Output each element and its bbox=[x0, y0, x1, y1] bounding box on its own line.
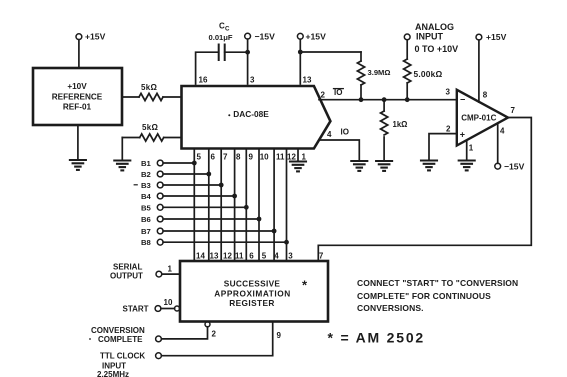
svg-text:8: 8 bbox=[483, 91, 488, 100]
terminal B8 bbox=[141, 238, 163, 247]
wire comparator output pin 7 feedback loop to SAR pin 7 bbox=[318, 118, 531, 262]
resistor R3 1kOhm (summing node to ground) bbox=[381, 100, 408, 161]
svg-text:7: 7 bbox=[319, 252, 324, 261]
terminal start pin 10 bbox=[123, 298, 173, 314]
svg-text:REGISTER: REGISTER bbox=[229, 298, 275, 308]
wire +15V to REF-01 top bbox=[78, 40, 80, 68]
wire DAC pin 4 to ground bbox=[320, 140, 360, 161]
svg-text:B4: B4 bbox=[141, 192, 152, 201]
svg-text:4: 4 bbox=[327, 130, 332, 139]
net IObar label bbox=[334, 88, 344, 97]
wire DAC pin 8 bus bit 4 bbox=[234, 149, 236, 262]
svg-text:4: 4 bbox=[500, 127, 505, 136]
svg-text:0 TO +10V: 0 TO +10V bbox=[415, 44, 459, 54]
node junction 3.9M / summing line bbox=[359, 97, 364, 102]
svg-text:* = AM 2502: * = AM 2502 bbox=[328, 329, 426, 345]
svg-text:1: 1 bbox=[302, 153, 307, 162]
wire B4 to bus bbox=[163, 195, 235, 197]
wire serial output to U4 bbox=[162, 273, 180, 275]
svg-text:INPUT: INPUT bbox=[416, 31, 444, 41]
register U4 successive approximation register AM2502 bbox=[180, 252, 328, 322]
svg-text:5: 5 bbox=[197, 153, 202, 162]
svg-text:+15V: +15V bbox=[85, 32, 106, 42]
svg-text:*: * bbox=[302, 278, 308, 293]
svg-text:B3: B3 bbox=[141, 181, 151, 190]
svg-text:2: 2 bbox=[212, 330, 217, 339]
node junction R4 / summing line bbox=[405, 97, 410, 102]
svg-text:0.01μF: 0.01μF bbox=[209, 33, 233, 42]
svg-text:8: 8 bbox=[236, 153, 241, 162]
svg-text:COMPLETE" FOR CONTINUOUS: COMPLETE" FOR CONTINUOUS bbox=[357, 291, 491, 301]
node junction CC / -15V / DAC pin 3 bbox=[245, 50, 250, 55]
bubble start input (active low) bbox=[175, 306, 180, 311]
svg-text:−15V: −15V bbox=[255, 31, 276, 41]
svg-text:12: 12 bbox=[287, 153, 296, 162]
ground at DAC pin 4 bbox=[351, 161, 367, 171]
svg-text:9: 9 bbox=[277, 331, 282, 340]
svg-text:5.00kΩ: 5.00kΩ bbox=[414, 69, 443, 79]
terminal B3 bbox=[134, 181, 163, 190]
resistor R2 5kOhm (DAC pin 15 to ground) bbox=[122, 123, 181, 160]
svg-text:COMPLETE: COMPLETE bbox=[98, 335, 143, 344]
ground at comparator pin 2 bbox=[421, 161, 437, 171]
resistor R5 3.9MOhm bbox=[357, 52, 390, 100]
svg-text:1: 1 bbox=[469, 144, 474, 153]
svg-text:2: 2 bbox=[321, 91, 326, 100]
node junction B1 bbox=[192, 161, 197, 166]
node junction B2 bbox=[206, 172, 211, 177]
terminal +15V (DAC V+) bbox=[297, 31, 326, 41]
svg-text:7: 7 bbox=[223, 153, 228, 162]
svg-text:B2: B2 bbox=[141, 170, 151, 179]
node junction B4 bbox=[232, 194, 237, 199]
voltage reference U3 REF-01 bbox=[33, 68, 122, 125]
svg-text:2.25MHz: 2.25MHz bbox=[97, 370, 129, 377]
terminal B7 bbox=[141, 227, 163, 236]
wire -15V terminal to DAC pin 3 bbox=[247, 39, 249, 84]
note text connect start bbox=[357, 278, 518, 313]
svg-text:5: 5 bbox=[262, 252, 267, 261]
ground below R2 bbox=[114, 161, 130, 171]
resistor R4 5.00kOhm (analog input) bbox=[404, 40, 443, 100]
wire B7 to bus bbox=[163, 230, 274, 232]
svg-text:SUCCESSIVE: SUCCESSIVE bbox=[224, 278, 281, 288]
wire +15V terminal to DAC pin 13 bbox=[299, 39, 301, 84]
wire +15V terminal to comparator pin 8 bbox=[478, 40, 480, 102]
wire DAC pin 6 bus bit 2 bbox=[208, 149, 210, 262]
svg-text:2: 2 bbox=[446, 125, 451, 134]
wire start to U4 bbox=[161, 308, 175, 310]
svg-text:−: − bbox=[460, 94, 465, 104]
svg-text:5kΩ: 5kΩ bbox=[141, 83, 157, 92]
pin labels 14 13 12 11 6 5 4 3 7 bbox=[196, 252, 324, 261]
svg-text:CONNECT "START" TO "CONVERSION: CONNECT "START" TO "CONVERSION bbox=[357, 278, 518, 288]
svg-text:CONVERSION: CONVERSION bbox=[91, 326, 145, 335]
node junction B3 bbox=[219, 183, 224, 188]
wire REF-01 bottom to ground bbox=[77, 125, 79, 160]
comparator U2 CMP-01C bbox=[446, 88, 516, 153]
svg-text:−15V: −15V bbox=[504, 161, 525, 171]
wire B5 to bus bbox=[163, 206, 246, 208]
svg-text:B8: B8 bbox=[141, 238, 152, 247]
svg-text:CMP-01C: CMP-01C bbox=[461, 114, 496, 123]
DAC U1 DAC-08E bbox=[182, 76, 333, 162]
svg-text:3: 3 bbox=[446, 88, 451, 97]
wire CC left plate to DAC pin 16 bbox=[196, 52, 219, 84]
svg-text:10: 10 bbox=[164, 298, 173, 307]
wire B2 to bus bbox=[163, 173, 209, 175]
svg-text:3: 3 bbox=[250, 76, 255, 85]
svg-text:B7: B7 bbox=[141, 227, 151, 236]
wire DAC pin 11 bus bit 7 bbox=[273, 149, 275, 262]
svg-text:6: 6 bbox=[249, 252, 254, 261]
svg-text:SERIAL: SERIAL bbox=[113, 263, 142, 272]
wire B8 to bus bbox=[163, 241, 286, 243]
wire comparator pin 1 to ground bbox=[466, 141, 468, 161]
svg-text:B6: B6 bbox=[141, 215, 151, 224]
svg-text:+15V: +15V bbox=[306, 31, 327, 41]
bubble conversion complete output bbox=[205, 322, 210, 327]
ground below R3 bbox=[376, 161, 392, 171]
node junction B7 bbox=[272, 229, 277, 234]
ground at DAC pin 1 bbox=[290, 162, 306, 172]
terminal TTL clock input pin 9 bbox=[97, 331, 282, 377]
svg-text:1kΩ: 1kΩ bbox=[393, 120, 408, 129]
svg-text:16: 16 bbox=[199, 76, 208, 85]
svg-text:5kΩ: 5kΩ bbox=[142, 123, 158, 132]
terminal B6 bbox=[141, 215, 163, 224]
svg-text:11: 11 bbox=[276, 153, 285, 162]
terminal B2 bbox=[141, 170, 163, 179]
svg-text:IO: IO bbox=[341, 128, 349, 137]
resistor R1 5kOhm (REF output to DAC pin 14) bbox=[122, 83, 182, 101]
terminal conversion complete pin 2 bbox=[89, 326, 216, 344]
svg-text:3.9MΩ: 3.9MΩ bbox=[368, 68, 391, 77]
svg-text:CONVERSIONS.: CONVERSIONS. bbox=[357, 303, 424, 313]
svg-text:12: 12 bbox=[223, 252, 232, 261]
svg-text:OUTPUT: OUTPUT bbox=[110, 272, 143, 281]
wire DAC pin 10 bus bit 6 bbox=[258, 149, 260, 262]
wire DAC pin 5 bus bit 1 bbox=[193, 149, 195, 262]
svg-text:14: 14 bbox=[196, 252, 205, 261]
svg-text:C: C bbox=[225, 26, 230, 33]
terminal B5 bbox=[141, 203, 163, 212]
svg-text:+: + bbox=[460, 129, 465, 139]
terminal serial output pin 1 bbox=[110, 263, 173, 281]
wire DAC pin 2 to comparator pin 3 (summing node) bbox=[319, 99, 457, 101]
svg-text:APPROXIMATION: APPROXIMATION bbox=[214, 289, 291, 299]
svg-text:9: 9 bbox=[249, 153, 254, 162]
node junction B5 bbox=[244, 205, 249, 210]
wire CC right plate to -15V node bbox=[225, 51, 248, 53]
node junction R3 / summing line bbox=[382, 97, 387, 102]
bottom pin labels 5 6 7 8 9 10 11 12 1 bbox=[197, 153, 307, 162]
wire DAC pin 9 bus bit 5 bbox=[245, 149, 247, 262]
terminal -15V (comparator V-) bbox=[495, 161, 525, 171]
wire comparator pin 2 to ground bbox=[429, 134, 457, 161]
wire B6 to bus bbox=[163, 218, 259, 220]
terminal +15V (comparator V+) bbox=[476, 32, 507, 42]
svg-text:1: 1 bbox=[168, 265, 173, 274]
svg-text:START: START bbox=[123, 305, 149, 314]
ground at comparator pin 1 bbox=[459, 161, 475, 171]
svg-text:11: 11 bbox=[235, 252, 244, 261]
node junction B6 bbox=[257, 217, 262, 222]
terminal -15V (DAC V-) bbox=[245, 31, 275, 41]
svg-text:+15V: +15V bbox=[486, 32, 507, 42]
wire DAC pin 12 bus bit 8 bbox=[286, 149, 288, 262]
svg-text:3: 3 bbox=[288, 252, 293, 261]
terminal B4 bbox=[141, 192, 163, 201]
svg-text:B1: B1 bbox=[141, 159, 152, 168]
wire conversion complete to U4 pin 2 bbox=[161, 327, 207, 339]
terminal +15V supply for REF-01 bbox=[76, 32, 106, 42]
svg-text:7: 7 bbox=[511, 106, 516, 115]
terminal analog input bbox=[404, 22, 458, 54]
svg-text:DAC-08E: DAC-08E bbox=[233, 109, 269, 119]
note text asterisk AM 2502 bbox=[328, 329, 426, 345]
svg-text:REF-01: REF-01 bbox=[63, 103, 92, 112]
wire DAC pin 7 bus bit 3 bbox=[220, 149, 222, 262]
wire +15V node to R5 3.9M top bbox=[300, 51, 361, 53]
svg-text:B5: B5 bbox=[141, 203, 152, 212]
capacitor CC 0.01uF bbox=[209, 22, 233, 61]
node junction +15V branch to R5 3.9M bbox=[298, 50, 303, 55]
wire B3 to bus bbox=[163, 184, 221, 186]
wire B1 to bus bbox=[163, 162, 194, 164]
svg-text:4: 4 bbox=[274, 252, 279, 261]
svg-text:13: 13 bbox=[210, 252, 219, 261]
wire DAC pin 1 to ground bbox=[297, 149, 299, 162]
svg-text:REFERENCE: REFERENCE bbox=[52, 93, 103, 102]
svg-text:13: 13 bbox=[303, 76, 312, 85]
svg-text:+10V: +10V bbox=[67, 82, 87, 91]
svg-text:TTL CLOCK: TTL CLOCK bbox=[100, 352, 145, 361]
wire comparator pin 4 to -15V terminal bbox=[497, 124, 499, 164]
wire TTL clock to U4 pin 9 bbox=[161, 322, 272, 356]
ground below REF-01 bbox=[70, 160, 86, 170]
svg-text:6: 6 bbox=[211, 153, 216, 162]
terminal B1 bbox=[141, 159, 163, 168]
svg-text:10: 10 bbox=[260, 153, 269, 162]
node junction B8 bbox=[284, 240, 289, 245]
